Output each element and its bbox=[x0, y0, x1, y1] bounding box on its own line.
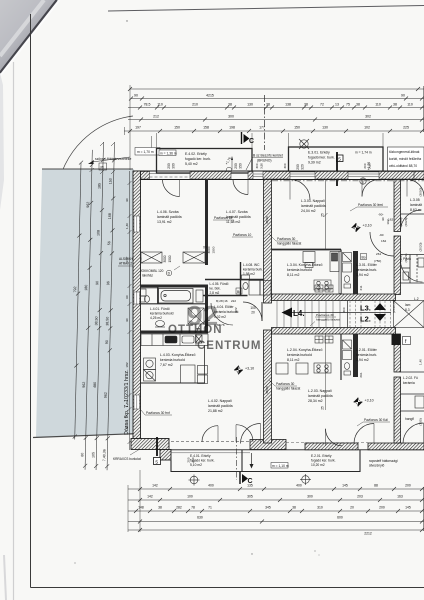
stair labels L3 L2 bbox=[360, 304, 371, 324]
svg-text:3000: 3000 bbox=[207, 246, 211, 253]
balcony E.4.01 outline bbox=[171, 450, 242, 472]
svg-text:m = 1,10 m: m = 1,10 m bbox=[272, 464, 289, 468]
svg-text:90: 90 bbox=[381, 217, 385, 221]
paper bottom-left edge bbox=[4, 555, 6, 600]
svg-text:261: 261 bbox=[376, 252, 381, 256]
survey point bottom mid bbox=[300, 474, 311, 485]
height note box left of balcony bbox=[135, 148, 160, 156]
svg-text:25: 25 bbox=[321, 406, 325, 410]
hall wall vertical (x208) mid bbox=[205, 285, 208, 334]
stair pavilonos label bbox=[310, 313, 340, 326]
shaft box right of stairs bbox=[394, 301, 424, 328]
kitchen L403 table bbox=[181, 365, 208, 384]
svg-text:L.4.06. Szoba: L.4.06. Szoba bbox=[157, 210, 179, 214]
kitchen L.3.04 appliance bbox=[303, 252, 315, 268]
svg-text:kerámia burk.: kerámia burk. bbox=[356, 353, 377, 357]
pavilonos note L2 right bbox=[357, 418, 390, 426]
svg-text:177: 177 bbox=[259, 126, 265, 130]
exterior wall top band bbox=[133, 171, 424, 180]
svg-text:kerámia burkold: kerámia burkold bbox=[287, 353, 312, 357]
spec note box top right bbox=[388, 147, 424, 173]
room L.2.01 Előtér label bbox=[356, 348, 378, 362]
svg-text:225: 225 bbox=[403, 126, 409, 130]
svg-text:7,40,36: 7,40,36 bbox=[102, 449, 106, 461]
L.3.03 interior dim line bbox=[321, 180, 328, 250]
svg-text:38: 38 bbox=[228, 103, 232, 107]
svg-text:(BRUNO): (BRUNO) bbox=[257, 159, 272, 163]
svg-text:200: 200 bbox=[363, 163, 367, 168]
svg-text:L.2.04. Konyha-Étkező: L.2.04. Konyha-Étkező bbox=[287, 347, 322, 352]
svg-text:158: 158 bbox=[203, 126, 209, 130]
balcony dash-dot axis bbox=[236, 437, 238, 480]
svg-text:212: 212 bbox=[153, 115, 159, 119]
svg-text:300: 300 bbox=[342, 307, 346, 312]
site dim line 2 labels bbox=[80, 202, 90, 457]
axis dash-dot under top wall bbox=[272, 180, 424, 182]
svg-text:L.3.01. Előtér: L.3.01. Előtér bbox=[356, 263, 378, 267]
balcony E.4.02 outline bbox=[157, 149, 253, 174]
svg-text:5,10 m2: 5,10 m2 bbox=[190, 463, 202, 467]
svg-text:kerámia burk.: kerámia burk. bbox=[356, 268, 377, 272]
svg-text:210: 210 bbox=[192, 103, 198, 107]
svg-text:hangfl: hangfl bbox=[405, 417, 414, 421]
svg-text:korlát, míndít felülethz: korlát, míndít felülethz bbox=[389, 157, 422, 161]
lakóház note above bath bbox=[140, 266, 180, 278]
L3 kitchen wall vertical (x341) bbox=[340, 250, 342, 295]
svg-text:L2.: L2. bbox=[360, 315, 371, 324]
room L.3.03 door arc from top bbox=[290, 180, 310, 200]
paper left edge bbox=[13, 62, 15, 600]
stairs treads bbox=[277, 301, 340, 328]
svg-text:185: 185 bbox=[97, 183, 101, 189]
svg-text:+3,10: +3,10 bbox=[365, 399, 374, 403]
L2 bath wall column bbox=[353, 334, 358, 377]
site dimension line 3 bbox=[94, 142, 105, 470]
svg-text:138: 138 bbox=[285, 103, 291, 107]
kitchen washer boxes bbox=[144, 358, 156, 381]
svg-text:Pavilonos 30 Kál: Pavilonos 30 Kál bbox=[364, 418, 388, 422]
bottom boxed 5 with cut mark bbox=[154, 437, 161, 465]
top dim chain line 2 bbox=[129, 97, 424, 101]
svg-text:962: 962 bbox=[86, 202, 90, 208]
bath L.4.01 wall shelf top bbox=[141, 287, 159, 289]
svg-text:JOKKOMBL 120: JOKKOMBL 120 bbox=[140, 269, 164, 273]
svg-text:ke. bük.: ke. bük. bbox=[210, 287, 221, 291]
right edge room lines bbox=[401, 171, 424, 394]
svg-text:180: 180 bbox=[84, 285, 88, 291]
svg-text:5: 5 bbox=[155, 459, 158, 465]
svg-text:5: 5 bbox=[338, 156, 341, 162]
site dim line 4 labels bbox=[102, 178, 112, 461]
svg-text:56: 56 bbox=[107, 241, 111, 245]
svg-text:100: 100 bbox=[187, 495, 193, 499]
top dim line 2 labels bbox=[134, 94, 405, 98]
svg-text:105: 105 bbox=[91, 452, 95, 458]
svg-text:laminált padlófa: laminált padlófa bbox=[157, 215, 182, 219]
far right door arc bottom bbox=[403, 423, 424, 444]
svg-text:90: 90 bbox=[105, 340, 109, 344]
balcony E.2.01 label bbox=[311, 454, 336, 467]
right edge vertical connectors bbox=[423, 86, 424, 531]
site area grey band bbox=[36, 169, 134, 437]
survey point bottom left bbox=[189, 475, 200, 486]
svg-text:38: 38 bbox=[292, 506, 296, 510]
room L.4.07 pavilonos 18 note bbox=[213, 216, 234, 220]
L.4.02 door arc bottom bbox=[171, 425, 253, 442]
svg-text:Pavilonos 10: Pavilonos 10 bbox=[233, 233, 251, 237]
party wall B hatched (x267) bbox=[264, 180, 272, 444]
section cut mark at top wall bbox=[336, 152, 338, 186]
bath L.4.05 label bbox=[210, 282, 229, 295]
interior door arc bath bbox=[197, 321, 210, 334]
bottom right note bbox=[369, 459, 398, 468]
room L.3.01 Előtér label bbox=[356, 263, 378, 277]
svg-text:38: 38 bbox=[393, 103, 397, 107]
right mid small dims bbox=[374, 213, 393, 264]
right edge extra walls bbox=[401, 255, 424, 412]
svg-text:3,94 m2: 3,94 m2 bbox=[356, 358, 369, 362]
site dimension line 4 bbox=[105, 142, 116, 470]
bottom dim line 2 labels bbox=[147, 495, 403, 499]
kitchen L.3.04 counter right bbox=[330, 252, 341, 294]
site boundary arc bbox=[57, 116, 133, 191]
svg-text:203: 203 bbox=[357, 495, 363, 499]
svg-text:90: 90 bbox=[401, 94, 405, 98]
svg-text:400: 400 bbox=[296, 484, 302, 488]
wardrobe dim labels bbox=[163, 255, 172, 262]
site boundary note top bbox=[88, 157, 131, 164]
svg-text:Pavilonos 30: Pavilonos 30 bbox=[316, 313, 334, 317]
svg-text:Pavlk: Pavlk bbox=[403, 257, 411, 261]
balcony down arrow bbox=[250, 453, 254, 469]
room L.4.06 door arc bbox=[163, 180, 180, 197]
svg-text:300: 300 bbox=[191, 457, 195, 462]
svg-text:11,68 m2: 11,68 m2 bbox=[226, 220, 240, 224]
svg-text:78: 78 bbox=[191, 506, 195, 510]
site dimension line 2 bbox=[83, 150, 94, 470]
right edge labels bbox=[403, 257, 419, 421]
svg-text:8| 28 |16: 8| 28 |16 bbox=[216, 299, 228, 303]
L.3.01 door arc big bbox=[370, 232, 394, 256]
hall upper wall bbox=[205, 279, 264, 281]
hall door size label bbox=[250, 306, 256, 315]
svg-text:(750): (750) bbox=[419, 418, 423, 425]
top dimension chain line 1 bbox=[128, 87, 424, 91]
svg-text:600: 600 bbox=[337, 516, 343, 520]
bottom dim line 4 labels bbox=[197, 516, 343, 520]
svg-text:88: 88 bbox=[374, 484, 378, 488]
svg-text:90: 90 bbox=[125, 318, 129, 322]
top dim line 3 labels bbox=[144, 103, 413, 107]
L3 bath wall column bbox=[353, 251, 358, 294]
pillar f box bbox=[403, 337, 411, 346]
bottom dim chain line 5 bbox=[128, 528, 424, 532]
svg-text:20: 20 bbox=[350, 506, 354, 510]
svg-text:102: 102 bbox=[364, 126, 370, 130]
bath sink bbox=[155, 321, 165, 328]
svg-text:kerámia burk.: kerámia burk. bbox=[243, 268, 263, 272]
L3 kitchen wall horizontal (y250) bbox=[272, 249, 342, 251]
L2 right door arc bbox=[354, 424, 374, 444]
svg-text:laminált padlófa: laminált padlófa bbox=[208, 404, 233, 408]
svg-text:162: 162 bbox=[388, 218, 393, 222]
svg-text:300: 300 bbox=[283, 163, 287, 168]
L2 bath fixtures column bbox=[343, 340, 352, 375]
svg-text:282: 282 bbox=[176, 506, 182, 510]
exterior wall bottom-left corner step bbox=[131, 439, 171, 461]
wardrobe row room L406 bbox=[141, 252, 162, 263]
level marker star L2.03 bbox=[354, 398, 374, 407]
svg-text:198: 198 bbox=[229, 126, 235, 130]
svg-text:L.2: L.2 bbox=[414, 297, 419, 301]
stairwell wall upper bbox=[272, 294, 396, 301]
svg-text:222: 222 bbox=[231, 299, 236, 303]
stair direction triangles bbox=[374, 303, 386, 321]
svg-text:L.3.05: L.3.05 bbox=[410, 198, 420, 202]
svg-text:CENTRUM: CENTRUM bbox=[197, 340, 262, 352]
top dim line 5 labels bbox=[135, 126, 409, 130]
party wall A solid (between L406 L407) bbox=[205, 180, 208, 266]
svg-text:hanggátló falazat: hanggátló falazat bbox=[276, 387, 300, 391]
svg-text:8,3: 8,3 bbox=[405, 308, 410, 312]
svg-text:L.2.02. Fü: L.2.02. Fü bbox=[403, 376, 418, 380]
scan corner artifact top-left bbox=[0, 0, 60, 210]
svg-text:200: 200 bbox=[167, 163, 171, 169]
top dim chain line 4 bbox=[128, 118, 424, 122]
hall tiny dims bbox=[216, 299, 236, 327]
room L.3.03 label bbox=[301, 199, 326, 213]
svg-text:400: 400 bbox=[208, 484, 214, 488]
section line D vertical dash-dot bbox=[264, 95, 266, 150]
stairs walk line arrow bbox=[282, 308, 392, 318]
hall closet boxes bbox=[249, 281, 271, 296]
pavilonos label right top bbox=[350, 203, 388, 211]
survey point top bbox=[299, 139, 309, 149]
svg-text:2,8 m2: 2,8 m2 bbox=[210, 291, 220, 295]
svg-text:L.4.02. Nappali: L.4.02. Nappali bbox=[208, 399, 232, 403]
svg-text:21,88 m2: 21,88 m2 bbox=[208, 409, 223, 413]
bottom dim line 1 labels bbox=[152, 484, 411, 488]
svg-text:8,11 m2: 8,11 m2 bbox=[287, 358, 299, 362]
balcony E.4.02 label bbox=[185, 152, 211, 166]
svg-text:Pavilonos 18: Pavilonos 18 bbox=[214, 216, 232, 220]
svg-text:25: 25 bbox=[321, 213, 325, 217]
svg-text:300: 300 bbox=[228, 115, 234, 119]
svg-text:2,50: 2,50 bbox=[368, 163, 372, 169]
bottom dim chain line 2 bbox=[128, 498, 424, 502]
hall mid wall bbox=[203, 295, 248, 297]
svg-text:261: 261 bbox=[359, 372, 363, 377]
svg-text:100: 100 bbox=[250, 306, 256, 310]
svg-text:m = 1,36 m: m = 1,36 m bbox=[160, 151, 177, 155]
svg-text:Pavilonos 30 léml: Pavilonos 30 léml bbox=[358, 203, 383, 207]
svg-text:m = 1,74 m: m = 1,74 m bbox=[355, 151, 372, 155]
svg-text:163: 163 bbox=[397, 495, 403, 499]
svg-text:E.4.02. Erkély: E.4.02. Erkély bbox=[185, 152, 207, 156]
svg-text:182: 182 bbox=[125, 362, 129, 367]
top dim line 4 labels bbox=[153, 115, 371, 119]
stairs dashed treads right bbox=[350, 301, 391, 328]
svg-text:145: 145 bbox=[342, 484, 348, 488]
svg-text:630: 630 bbox=[197, 516, 203, 520]
svg-text:200: 200 bbox=[187, 457, 191, 462]
svg-text:B sz Beszífs kerület: B sz Beszífs kerület bbox=[253, 154, 283, 158]
svg-text:168: 168 bbox=[108, 213, 112, 219]
svg-text:L.2.01. Előtér: L.2.01. Előtér bbox=[356, 348, 378, 352]
svg-text:célú-oldttárol 88,70: célú-oldttárol 88,70 bbox=[389, 164, 417, 168]
svg-text:(2626): (2626) bbox=[404, 218, 408, 227]
svg-text:fogadói ker. burk.: fogadói ker. burk. bbox=[308, 156, 335, 160]
site note mid (ALSO SZINT) bbox=[118, 256, 142, 266]
svg-text:hanggátló falazat: hanggátló falazat bbox=[316, 318, 340, 322]
svg-text:38: 38 bbox=[304, 103, 308, 107]
svg-text:C: C bbox=[249, 138, 254, 145]
svg-text:fogadó ker. burk.: fogadó ker. burk. bbox=[185, 157, 211, 161]
svg-text:60: 60 bbox=[125, 295, 129, 299]
pavilonos label L3 wall bbox=[269, 234, 301, 246]
svg-text:350: 350 bbox=[239, 163, 243, 169]
axis circle marker bbox=[360, 178, 366, 184]
vent boxes lower stair wall bbox=[315, 336, 333, 343]
svg-text:Bo: Bo bbox=[362, 255, 366, 259]
level marker star L3 bbox=[352, 223, 372, 232]
svg-text:rapcsteff háttországi: rapcsteff háttországi bbox=[369, 459, 398, 463]
svg-text:110: 110 bbox=[375, 103, 381, 107]
vent boxes upper stair wall bbox=[315, 285, 333, 292]
balcony E.4.01 side dims bbox=[187, 457, 196, 462]
svg-text:200: 200 bbox=[379, 506, 385, 510]
svg-text:m = 1,70 m: m = 1,70 m bbox=[137, 150, 154, 154]
svg-text:lakóház: lakóház bbox=[142, 274, 153, 278]
svg-text:222: 222 bbox=[234, 307, 238, 312]
balcony E.3.01 boxed 5 bbox=[337, 155, 344, 162]
svg-text:KRRAXCS burkolat: KRRAXCS burkolat bbox=[113, 457, 141, 461]
svg-text:2212: 2212 bbox=[364, 532, 372, 536]
hall L.4.08 WC label bbox=[243, 263, 263, 276]
kitchen L.3.04 label bbox=[287, 262, 322, 277]
bottom dim line 3 labels bbox=[138, 506, 411, 510]
svg-text:laminált padlófa: laminált padlófa bbox=[301, 204, 326, 208]
svg-text:L.4.04. Előtér: L.4.04. Előtér bbox=[214, 305, 235, 309]
svg-text:4215: 4215 bbox=[206, 94, 214, 98]
balcony E.2.01 outline bbox=[242, 450, 360, 472]
top paper edge line bbox=[108, 6, 424, 12]
svg-text:300: 300 bbox=[255, 163, 259, 168]
Bo box hall bbox=[236, 288, 242, 294]
svg-text:135: 135 bbox=[247, 484, 253, 488]
L.4.02 pavilonos note bbox=[141, 410, 172, 415]
svg-text:38,50: 38,50 bbox=[94, 316, 98, 325]
L2.03 door arc bottom left bbox=[241, 424, 261, 444]
svg-text:-90: -90 bbox=[379, 233, 384, 237]
svg-text:E.4.01. Erkély: E.4.01. Erkély bbox=[190, 454, 211, 458]
party wall C hatched (x397) bbox=[394, 180, 401, 444]
hall L.4.04 label bbox=[214, 305, 238, 319]
svg-text:Pavilonos 30 frnf: Pavilonos 30 frnf bbox=[146, 411, 170, 415]
svg-text:8,11 m2: 8,11 m2 bbox=[287, 273, 299, 277]
svg-text:962: 962 bbox=[104, 392, 108, 398]
room L.3.05 label bbox=[410, 198, 422, 212]
stove L.3.04 bbox=[314, 280, 331, 290]
pavilonos note L2 wall bbox=[269, 380, 300, 391]
svg-text:laminált: laminált bbox=[410, 203, 422, 207]
svg-text:L.4.08. WC: L.4.08. WC bbox=[243, 263, 260, 267]
svg-text:60: 60 bbox=[80, 453, 84, 457]
svg-text:1,40: 1,40 bbox=[125, 223, 129, 229]
section marker C top bbox=[242, 132, 255, 145]
svg-text:-90-: -90- bbox=[378, 213, 384, 217]
WC L408 fixtures bbox=[242, 275, 250, 289]
svg-text:átvezénylő: átvezénylő bbox=[369, 464, 384, 468]
site band top edge bbox=[42, 168, 133, 170]
svg-text:1,40: 1,40 bbox=[419, 359, 423, 365]
L3 hall Bo box bbox=[361, 254, 367, 260]
svg-text:3,50: 3,50 bbox=[260, 163, 264, 169]
hall door arc left of stairs bbox=[243, 302, 262, 321]
svg-text:10,20 m2: 10,20 m2 bbox=[311, 463, 325, 467]
small rotated dims mid plan bbox=[207, 216, 363, 394]
svg-text:345: 345 bbox=[265, 506, 271, 510]
bottom-left boundary note bbox=[113, 449, 141, 461]
svg-text:302: 302 bbox=[365, 115, 371, 119]
room L.4.07 door arc bbox=[233, 180, 248, 195]
svg-text:3,94 m2: 3,94 m2 bbox=[356, 273, 369, 277]
svg-text:38,50: 38,50 bbox=[265, 216, 269, 224]
svg-text:38: 38 bbox=[266, 103, 270, 107]
svg-text:108: 108 bbox=[96, 230, 100, 236]
exterior wall left band bbox=[133, 171, 141, 442]
svg-text:60 76: 60 76 bbox=[217, 323, 225, 327]
svg-text:96: 96 bbox=[106, 281, 110, 285]
svg-text:78,5: 78,5 bbox=[144, 103, 151, 107]
bottom dim chain line 3 bbox=[128, 509, 424, 513]
site dim line 3 labels bbox=[91, 183, 101, 458]
svg-text:200: 200 bbox=[296, 164, 300, 170]
svg-text:1500: 1500 bbox=[212, 246, 216, 253]
left wall dim column line bbox=[128, 171, 132, 450]
svg-text:tűzkongenerál-ktlnak: tűzkongenerál-ktlnak bbox=[389, 150, 420, 154]
bathtub L4 bbox=[139, 288, 205, 325]
WC room L4 fixtures bbox=[141, 289, 150, 302]
svg-text:300: 300 bbox=[307, 495, 313, 499]
small dims above top wall bbox=[255, 163, 372, 169]
svg-text:197: 197 bbox=[135, 126, 141, 130]
svg-text:Pavilonos 30: Pavilonos 30 bbox=[276, 382, 294, 386]
wardrobe row room L407 bbox=[183, 252, 205, 263]
L2 kitchen wall vertical bbox=[340, 334, 342, 380]
svg-text:5,40 m2: 5,40 m2 bbox=[185, 162, 198, 166]
room L.4.02 label bbox=[208, 399, 233, 413]
svg-text:9,39 m2: 9,39 m2 bbox=[308, 161, 321, 165]
site dimension line 1 bbox=[73, 161, 83, 440]
bottom dim chain line 1 bbox=[128, 487, 424, 491]
svg-text:(3000): (3000) bbox=[419, 188, 423, 197]
room L.2.03 label bbox=[308, 389, 333, 403]
svg-text:962: 962 bbox=[82, 382, 86, 388]
svg-text:211: 211 bbox=[359, 285, 363, 290]
balcony E.4.01 label bbox=[190, 454, 215, 467]
svg-text:L.3.03. Nappali: L.3.03. Nappali bbox=[301, 199, 325, 203]
svg-text:+3,10: +3,10 bbox=[363, 224, 372, 228]
svg-text:20: 20 bbox=[251, 311, 255, 315]
svg-text:150: 150 bbox=[294, 126, 300, 130]
svg-text:L.4.07. Szoba: L.4.07. Szoba bbox=[226, 210, 248, 214]
balcony extension verticals from dim lines bbox=[157, 133, 384, 148]
exterior wall bottom mid-right block bbox=[305, 443, 358, 450]
svg-text:laminált padlófa: laminált padlófa bbox=[308, 394, 333, 398]
svg-text:305: 305 bbox=[247, 495, 253, 499]
svg-text:142: 142 bbox=[152, 484, 158, 488]
